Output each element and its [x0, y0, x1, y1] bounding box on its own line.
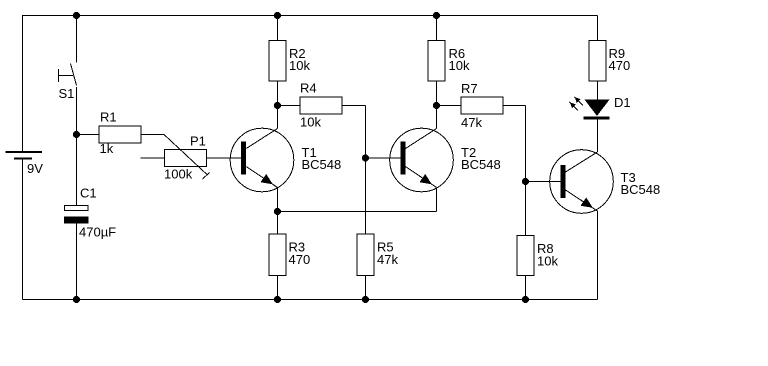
wire switch branch from top rail — [76, 16, 78, 63]
potentiometer P1 body — [165, 150, 207, 167]
wire T2 emitter down — [436, 188, 438, 212]
transistor T2 emitter diagonal — [406, 167, 437, 188]
switch S1 contact terminal tick — [58, 69, 60, 82]
svg-text:47k: 47k — [461, 115, 482, 130]
wire R7 down to R8 (T3 base rail) — [525, 106, 527, 236]
wire bottom ground rail — [23, 299, 598, 301]
resistor R6 body — [428, 41, 445, 82]
wire R2 bottom to T1 collector — [277, 81, 279, 106]
wire top supply rail — [23, 15, 598, 17]
svg-text:10k: 10k — [449, 58, 470, 73]
junction ground rail / C1 — [73, 296, 80, 303]
wire P1 right to T1 base — [207, 157, 242, 159]
junction node R1/C1 — [73, 131, 80, 138]
svg-text:1k: 1k — [100, 141, 114, 156]
svg-text:470: 470 — [289, 252, 311, 267]
svg-text:470: 470 — [609, 58, 631, 73]
wire R9 branch from top rail — [597, 16, 599, 41]
switch S1 contact bar — [59, 75, 74, 77]
wire R2 branch from top rail — [277, 16, 279, 41]
transistor T3 emitter arrow — [581, 197, 593, 208]
switch S1 blade — [71, 64, 77, 86]
svg-text:470µF: 470µF — [79, 225, 116, 240]
resistor R8 body — [517, 236, 534, 276]
svg-text:C1: C1 — [80, 185, 97, 200]
transistor T2 collector diagonal — [406, 129, 437, 149]
resistor R3 body — [269, 234, 286, 276]
svg-text:9V: 9V — [27, 161, 43, 176]
wire R1 right to P1 wiper — [141, 134, 164, 136]
junction node T2 base — [362, 154, 369, 161]
wire R3 bottom to ground rail — [277, 276, 279, 300]
resistor R9 body — [589, 41, 606, 82]
wire T2 base — [366, 157, 401, 159]
wire R9 bottom to D1 anode — [597, 81, 599, 100]
wire T1 emitter / T2 emitter horizontal link — [278, 211, 437, 213]
wire left rail upper (battery + to top rail) — [22, 15, 24, 152]
wire R6 branch from top rail — [436, 16, 438, 41]
wire R7 right corner — [503, 105, 526, 107]
wire node to R7 left — [437, 105, 462, 107]
junction ground rail / R5 — [362, 296, 369, 303]
svg-text:R4: R4 — [300, 81, 317, 96]
wire T3 base — [526, 181, 561, 183]
battery B1 9V negative plate — [14, 158, 32, 160]
junction ground rail / R3 — [274, 296, 281, 303]
wire R6 bottom to T2 collector node — [436, 81, 438, 106]
svg-text:10k: 10k — [289, 58, 310, 73]
junction top rail / R2 — [274, 12, 281, 19]
resistor R7 body — [461, 97, 503, 114]
junction node T1 emitter / R3 — [274, 208, 281, 215]
potentiometer P1 wiper diagonal — [164, 135, 208, 176]
wire left rail lower (battery - to bottom rail) — [22, 159, 24, 300]
wire switch to C1 top plate — [76, 87, 78, 206]
resistor R2 body — [269, 41, 286, 82]
junction top rail / R6 — [433, 12, 440, 19]
capacitor C1 bottom plate (polarized) — [65, 217, 89, 223]
transistor T3 collector diagonal — [566, 152, 598, 172]
wire node to R1 left — [77, 134, 100, 136]
wire R5 bottom to ground rail — [365, 276, 367, 300]
wire R8 bottom to ground rail — [525, 276, 527, 300]
battery B1 9V positive plate — [6, 151, 43, 153]
wire T1 emitter down — [277, 188, 279, 212]
transistor T3 emitter diagonal — [566, 190, 598, 211]
svg-text:10k: 10k — [537, 253, 558, 268]
svg-text:P1: P1 — [190, 134, 206, 149]
wire P1 left stub — [141, 157, 165, 159]
wire R4 down to R5 (T2 base rail) — [365, 106, 367, 235]
LED D1 triangle — [585, 100, 610, 117]
LED D1 light arrow lower line — [570, 102, 579, 111]
wire node down to R3 — [277, 212, 279, 235]
wire node to R4 left — [278, 105, 301, 107]
svg-text:R1: R1 — [100, 110, 117, 125]
svg-text:BC548: BC548 — [621, 182, 661, 197]
svg-text:D1: D1 — [614, 95, 631, 110]
transistor T3 circle — [550, 150, 614, 214]
junction top rail / switch — [73, 12, 80, 19]
resistor R4 body — [300, 97, 342, 114]
LED D1 cathode bar — [584, 117, 610, 120]
junction node R2/R4/T1 collector — [274, 102, 281, 109]
svg-text:BC548: BC548 — [461, 157, 501, 172]
wire T1 collector up to R2/R4 node — [277, 106, 279, 129]
svg-text:S1: S1 — [59, 86, 75, 101]
LED D1 light arrow upper head — [575, 97, 581, 103]
transistor T1 circle — [230, 128, 294, 192]
wire T3 emitter down to ground rail — [597, 211, 599, 300]
LED D1 light arrow upper line — [575, 97, 584, 106]
junction ground rail / R8 — [522, 296, 529, 303]
svg-text:10k: 10k — [300, 115, 321, 130]
svg-text:100k: 100k — [164, 166, 193, 181]
junction node R6/R7/T2 collector — [433, 102, 440, 109]
LED D1 light arrow lower head — [570, 102, 576, 108]
transistor T1 emitter arrow — [261, 174, 273, 185]
wire T2 collector up to R6/R7 node — [436, 106, 438, 129]
transistor T1 emitter diagonal — [246, 167, 277, 188]
wire R4 right corner — [342, 105, 366, 107]
capacitor C1 top plate — [65, 206, 89, 211]
transistor T1 collector diagonal — [246, 129, 277, 149]
svg-text:47k: 47k — [377, 252, 398, 267]
resistor R5 body — [357, 234, 374, 276]
svg-text:R7: R7 — [461, 81, 478, 96]
transistor T2 circle — [390, 128, 454, 192]
resistor R1 body — [99, 126, 141, 143]
junction node T3 base — [522, 178, 529, 185]
transistor T2 emitter arrow — [420, 174, 432, 185]
transistor T3 base bar — [560, 165, 565, 198]
transistor T1 base bar — [241, 142, 246, 175]
transistor T2 base bar — [400, 142, 405, 175]
wire C1 to bottom rail — [76, 223, 78, 300]
potentiometer P1 wiper end tick — [203, 173, 210, 180]
wire T3 collector up to LED cathode — [597, 120, 599, 153]
svg-text:BC548: BC548 — [302, 157, 342, 172]
